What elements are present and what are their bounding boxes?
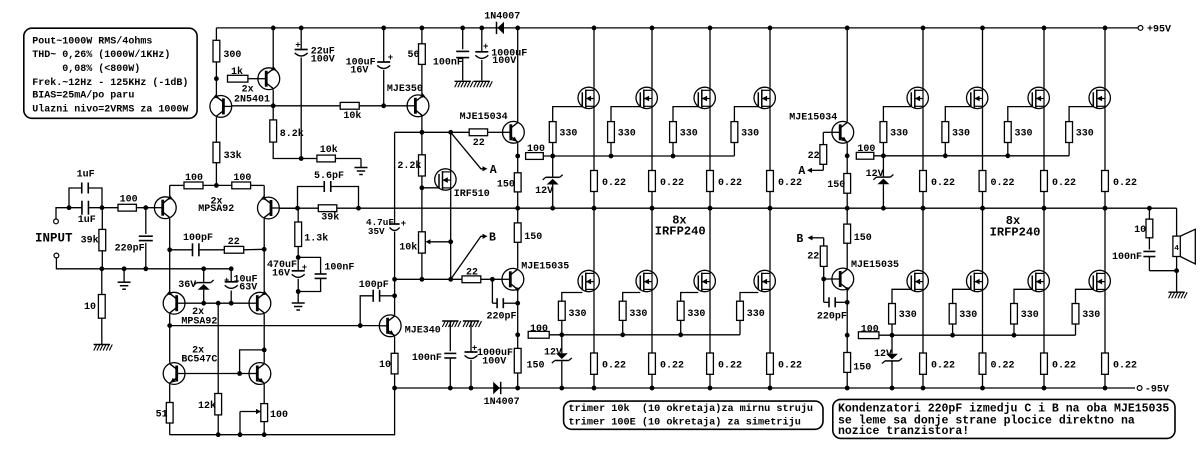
node 470uF/100nF bottom [296, 289, 301, 294]
resistor 10 (zobel) [1148, 208, 1150, 219]
node MJE15034R emitter / gate bus [845, 153, 850, 158]
node right diff collector / cascode [262, 247, 267, 252]
svg-text:-95V: -95V [1145, 385, 1169, 396]
wire gate bus 1 (left bank) [543, 155, 734, 157]
node diff right base [295, 206, 300, 211]
svg-text:100: 100 [861, 325, 879, 336]
svg-text:+: + [295, 40, 300, 50]
spec text box [24, 28, 197, 118]
svg-text:12V: 12V [544, 348, 562, 359]
node gate bus2R #2 [950, 333, 955, 338]
svg-text:100V: 100V [311, 55, 335, 66]
node gate bus1R #2 [943, 153, 948, 158]
resistor 0.22 (bank1 lower #2) [649, 353, 656, 374]
svg-text:0,08% (<800W): 0,08% (<800W) [62, 63, 140, 75]
svg-text:100nF: 100nF [433, 58, 463, 69]
resistor 1k [228, 75, 248, 82]
svg-text:+: + [224, 276, 229, 286]
wire BC547 diode connection [240, 350, 265, 374]
node source on output rail (bank2 #3) [1042, 206, 1047, 211]
resistor 330 (bank2 lower #4) [1076, 289, 1094, 303]
node lower zener on -rail [559, 386, 564, 391]
svg-text:330: 330 [569, 309, 587, 320]
speaker 4 ohm [1176, 208, 1178, 236]
svg-text:150: 150 [527, 361, 545, 372]
resistor 10 (MJE340 emitter) [394, 337, 396, 354]
terminal input hot [54, 219, 59, 224]
svg-text:330: 330 [680, 128, 698, 139]
svg-text:0.22: 0.22 [602, 178, 626, 189]
resistor 330 (bank2 lower #3) [1014, 289, 1032, 303]
transistor MJE15035 (left) [502, 268, 524, 290]
svg-text:330: 330 [747, 309, 765, 320]
svg-text:10k: 10k [343, 110, 361, 122]
svg-text:330: 330 [899, 310, 917, 321]
node -rail / MJE15035 column [515, 386, 520, 391]
svg-text:+95V: +95V [1147, 25, 1171, 36]
terminal +95V [1138, 26, 1143, 31]
resistor 10k (to ground) [317, 155, 336, 162]
node 100pF lower junction [392, 293, 397, 298]
zener 36V [203, 269, 205, 282]
node drain on +rail (bank1 #1) [592, 26, 597, 31]
node zener/cascode base [201, 301, 206, 306]
node ground-line junctions [99, 266, 104, 271]
ground (feedback, 3-bar) [297, 292, 299, 303]
node source on output rail (bank1 #3) [708, 206, 713, 211]
ground (speaker, hatched) [1176, 271, 1178, 292]
capacitor 100nF (zobel) [1143, 250, 1155, 252]
svg-text:MJE15034: MJE15034 [789, 112, 837, 123]
node gate bus1R/zener [881, 153, 886, 158]
wire +95V top rail [216, 27, 1138, 29]
svg-text:39k: 39k [81, 235, 99, 247]
capacitor 100pF (MJE340) [380, 295, 395, 297]
wire VAS base line [273, 105, 340, 107]
node source on output rail (bank2 #4) [1103, 206, 1108, 211]
node source on -rail (bank2 lower #1) [921, 386, 926, 391]
svg-text:0.22: 0.22 [718, 178, 742, 189]
node gate bus 2 left [515, 332, 520, 337]
node MJE15035 base / 220pF [490, 277, 495, 282]
resistor 330 (bank1 upper #2) [611, 107, 640, 122]
resistor 0.22 (bank1 upper #1) [591, 171, 598, 192]
wire B-node line [395, 278, 462, 280]
svg-text:330: 330 [1021, 310, 1039, 321]
wire -95V bottom rail [395, 387, 1135, 389]
svg-text:22: 22 [228, 237, 240, 248]
transistor IRFP240 (bank1 lower #3) [709, 208, 711, 270]
resistor 0.22 (bank2 lower #1) [920, 353, 927, 374]
node source on output rail (bank1 #2) [650, 206, 655, 211]
svg-text:10k: 10k [320, 144, 338, 156]
node MJE15035R emitter/220pF [845, 300, 850, 305]
svg-text:330: 330 [618, 128, 636, 139]
resistor 0.22 (bank2 lower #3) [1041, 353, 1048, 374]
svg-text:35V: 35V [368, 226, 385, 237]
resistor 150 (lowest, X2) [846, 335, 848, 352]
node drain on output rail (bank2 lower #4) [1103, 206, 1108, 211]
svg-text:63V: 63V [239, 282, 257, 293]
node trimmer wiper / IRF510 source [448, 239, 453, 244]
resistor 8.2k [272, 106, 274, 120]
wire cascode base line [185, 302, 249, 304]
resistor 39k (feedback) [318, 205, 337, 212]
transistor IRFP240 (bank2 lower #3) [1043, 208, 1045, 270]
node source on output rail (bank2 #2) [980, 206, 985, 211]
arrow B (right bank) [810, 237, 824, 239]
node lower zenerR on -rail [890, 386, 895, 391]
node drain on +rail (bank1 #4) [768, 26, 773, 31]
resistor 2.2k [421, 132, 423, 155]
node 100uF/MJE350 base [381, 103, 386, 108]
svg-text:1uF: 1uF [77, 170, 95, 181]
resistor 150 (lowest, X1) [517, 335, 519, 349]
resistor 0.22 (bank2 upper #3) [1041, 171, 1048, 192]
node drain on output rail (bank1 lower #2) [650, 206, 655, 211]
transistor IRFP240 (bank1 upper #1) [593, 28, 595, 87]
capacitor 5.6pF (feedback) [298, 187, 325, 209]
transistor IRFP240 (bank2 upper #1) [922, 28, 924, 87]
wire MJE15034 collector column [517, 28, 519, 122]
svg-text:0.22: 0.22 [718, 360, 742, 371]
resistor 150 (upper, X1) [517, 156, 519, 173]
svg-text:330: 330 [559, 128, 577, 139]
svg-text:Ulazni nivo=2VRMS za 1000W: Ulazni nivo=2VRMS za 1000W [32, 103, 188, 115]
node 39k/5.6pF output side [356, 206, 361, 211]
node gate bus2R #3 [1012, 333, 1017, 338]
svg-text:100pF: 100pF [183, 233, 213, 244]
node source on output rail (bank1 #4) [768, 206, 773, 211]
zener 12V (left bank lower) [561, 335, 563, 354]
resistor 100 (left diff emitter) [184, 182, 203, 189]
node 2.2k top [420, 130, 425, 135]
resistor 22 (B feed, right) [824, 278, 832, 280]
resistor 150 (upper, X2) [846, 156, 848, 174]
resistor 0.22 (bank2 lower #4) [1102, 353, 1109, 374]
node trimmer wiper bottom [238, 432, 243, 437]
svg-text:1k: 1k [231, 66, 243, 78]
node diff tail [214, 183, 219, 188]
node drain on +rail (bank2 #3) [1042, 26, 1047, 31]
svg-text:MJE15035: MJE15035 [851, 260, 899, 271]
node drain on output rail (bank1 lower #3) [708, 206, 713, 211]
svg-text:10: 10 [379, 360, 391, 371]
ground (input, 3-bar) [123, 269, 125, 282]
svg-text:220pF: 220pF [115, 244, 145, 255]
transistor BC547C (right) [263, 350, 265, 363]
svg-text:B: B [796, 233, 803, 246]
terminal input ground [54, 253, 59, 258]
wire input line to first stage [88, 207, 118, 209]
svg-text:+: + [388, 53, 393, 63]
svg-text:100: 100 [185, 173, 203, 184]
resistor 22 (A feed, right) [823, 131, 832, 133]
svg-text:trimer 100E (10 okretaja) za s: trimer 100E (10 okretaja) za simetriju [569, 416, 801, 428]
transistor MJE350 [407, 95, 429, 117]
wire gate bus 2 (right bank) [879, 334, 1076, 336]
svg-text:BIAS=25mA/po paru: BIAS=25mA/po paru [32, 90, 134, 102]
node source on -rail (bank2 lower #2) [980, 386, 985, 391]
svg-text:56: 56 [408, 50, 420, 61]
node gate bus1/zener [550, 154, 555, 159]
resistor 0.22 (bank1 lower #1) [591, 353, 598, 374]
svg-text:THD~ 0,26% (1000W/1KHz): THD~ 0,26% (1000W/1KHz) [32, 49, 170, 61]
resistor 22 (MJE15034 base) [469, 129, 487, 136]
svg-text:100: 100 [530, 324, 548, 335]
wire gate bus 1 (right bank) [874, 155, 1069, 157]
wire bottom-left return [170, 388, 395, 435]
svg-text:8.2k: 8.2k [280, 128, 304, 140]
svg-text:100V: 100V [482, 357, 506, 368]
zener 12V (left bank upper) [552, 156, 554, 177]
resistor 330 (bank1 upper #4) [734, 107, 758, 122]
node diode/MJE15034 column on +rail [515, 26, 520, 31]
node drain on output rail (bank1 lower #4) [768, 206, 773, 211]
node zenerR on output rail [881, 206, 886, 211]
svg-text:MJE350: MJE350 [387, 84, 423, 95]
node source on output rail (bank2 #1) [921, 206, 926, 211]
node 12k top [216, 301, 221, 306]
resistor 100 (gate bus 2 right) [858, 332, 879, 339]
wire MJE15034R emitter [846, 143, 848, 156]
transistor MJE15034 (right) [832, 121, 854, 143]
capacitor 1000uF 100V (top) [481, 28, 483, 52]
svg-text:330: 330 [1082, 310, 1100, 321]
node 2N5401/VAS line [271, 103, 276, 108]
wire MJE15035 emitter column [517, 290, 519, 335]
node source on output rail (bank1 #1) [592, 206, 597, 211]
trimmer 100 (symmetry) [261, 404, 268, 422]
node cascode collector/VAS line [167, 323, 172, 328]
node 1000uF on +rail [479, 26, 484, 31]
svg-text:MJE15034: MJE15034 [460, 112, 508, 123]
transistor IRFP240 (bank2 lower #1) [922, 208, 924, 270]
capacitor 220pF (input filter) [145, 208, 147, 234]
node drain on +rail (bank2 #4) [1103, 26, 1108, 31]
node 4.7uF bottom [392, 277, 397, 282]
svg-text:330: 330 [952, 128, 970, 139]
arrow A (to right bank) [452, 134, 483, 169]
resistor 330 (bank2 upper #4) [1069, 107, 1093, 122]
node 10k trimmer bottom on B line [420, 277, 425, 282]
svg-text:36V: 36V [178, 280, 196, 291]
svg-text:IRFP240: IRFP240 [990, 226, 1041, 240]
note box 220pF mounting [833, 399, 1175, 438]
svg-text:IRFP240: IRFP240 [655, 225, 706, 239]
svg-text:12V: 12V [866, 169, 884, 180]
node IRF510 drain / A [448, 130, 453, 135]
transistor IRFP240 (bank2 upper #2) [982, 28, 984, 87]
capacitor 100nF (rail bypass bottom) [442, 320, 458, 322]
node speaker return [1174, 268, 1179, 273]
node drain on output rail (bank2 lower #2) [980, 206, 985, 211]
svg-text:330: 330 [741, 128, 759, 139]
resistor 22 (comp) [224, 246, 243, 253]
svg-text:BC547C: BC547C [181, 355, 217, 366]
svg-text:22: 22 [473, 138, 485, 149]
node IRF510 source on B line [448, 277, 453, 282]
resistor 0.22 (bank1 upper #4) [767, 171, 774, 192]
svg-text:+: + [302, 263, 307, 273]
transistor IRFP240 (bank2 lower #4) [1104, 208, 1106, 270]
resistor 330 (bank1 lower #4) [740, 293, 758, 302]
transistor MJE15034 (left) [503, 121, 525, 143]
resistor 0.22 (bank2 upper #2) [979, 171, 986, 192]
node gate bus2/zener [559, 332, 564, 337]
resistor 300 [215, 28, 217, 40]
node X2 on output rail [845, 206, 850, 211]
wire diff collector line [170, 249, 193, 251]
node source on -rail (bank1 lower #1) [592, 386, 597, 391]
capacitor 100nF (bypass of 470uF) [298, 257, 320, 274]
resistor 100 (gate bus 1 right) [856, 152, 874, 159]
svg-text:33k: 33k [224, 150, 242, 162]
node gate bus1 #3 [671, 154, 676, 159]
capacitor 1000uF 100V (bottom) [463, 320, 479, 322]
transistor 2N5401 (left) [215, 79, 217, 96]
capacitor 22uF 100V [300, 28, 302, 49]
svg-text:100: 100 [270, 410, 288, 421]
svg-text:trimer 10k (10 okretaja)za mi: trimer 10k (10 okretaja)za mirnu struju [569, 403, 814, 415]
svg-text:0.22: 0.22 [1113, 178, 1137, 189]
capacitor 1uF (series input) [81, 201, 83, 215]
svg-text:51: 51 [156, 409, 168, 420]
node return on -rail [392, 386, 397, 391]
transistor IRFP240 (bank2 upper #3) [1043, 28, 1045, 87]
node left diff collector [167, 247, 172, 252]
svg-text:150: 150 [524, 232, 542, 243]
svg-text:2N5401: 2N5401 [234, 95, 270, 106]
node gate bus2 #3 [678, 332, 683, 337]
node 22uF on +rail [299, 26, 304, 31]
svg-text:0.22: 0.22 [660, 178, 684, 189]
transistor IRFP240 (bank2 lower #2) [982, 208, 984, 270]
svg-text:0.22: 0.22 [660, 360, 684, 371]
wire output rail (speaker bus) [280, 207, 1177, 209]
svg-text:12V: 12V [535, 186, 553, 197]
svg-text:Frek.~12Hz - 125KHz (-1dB): Frek.~12Hz - 125KHz (-1dB) [32, 77, 188, 89]
svg-text:B: B [489, 232, 496, 245]
node MJE15034 emitter / gate bus 1 [515, 154, 520, 159]
svg-text:0.22: 0.22 [991, 178, 1015, 189]
resistor 100 (gate bus 1 left) [526, 153, 544, 160]
svg-text:0.22: 0.22 [778, 360, 802, 371]
svg-text:150: 150 [854, 233, 872, 244]
svg-text:10k: 10k [399, 242, 417, 254]
resistor 1.3k [297, 208, 299, 222]
capacitor 220pF (right driver C-B) [823, 279, 825, 302]
svg-text:+: + [401, 219, 406, 229]
transistor IRFP240 (bank1 upper #3) [709, 28, 711, 87]
resistor 330 (bank2 upper #3) [1008, 107, 1033, 122]
wire diff emitter line [169, 185, 171, 196]
node trimmer 100 bottom [262, 432, 267, 437]
svg-text:150: 150 [497, 180, 515, 191]
diode 1N4007 (top rail) [496, 22, 498, 34]
svg-text:12V: 12V [874, 349, 892, 360]
resistor 12k [217, 303, 219, 393]
svg-text:100: 100 [120, 195, 138, 206]
transistor MPSA92 (cascode left) [169, 250, 171, 292]
resistor 100 (input series) [118, 204, 136, 211]
arrow B (to right bank) [451, 236, 483, 279]
svg-text:22: 22 [466, 267, 478, 278]
svg-text:INPUT: INPUT [35, 232, 73, 246]
transistor MJE15035 (right) [832, 268, 854, 290]
svg-text:0.22: 0.22 [991, 360, 1015, 371]
terminal -95V [1137, 386, 1142, 391]
node source on -rail (bank2 lower #4) [1103, 386, 1108, 391]
transistor IRFP240 (bank1 upper #4) [769, 28, 771, 87]
node 1000uF on -rail [469, 386, 474, 391]
resistor 330 (bank2 lower #1) [892, 289, 911, 303]
resistor 330 (bank1 upper #3) [673, 107, 698, 122]
resistor 330 (bank1 lower #2) [623, 293, 641, 302]
svg-text:10: 10 [1134, 225, 1146, 236]
transistor MPSA92 (diff left) [136, 207, 154, 209]
transistor IRFP240 (bank1 lower #2) [651, 208, 653, 270]
resistor 56 [419, 44, 426, 65]
transistor IRFP240 (bank1 lower #4) [769, 208, 771, 270]
arrow A (right bank) [809, 169, 823, 171]
capacitor 100pF (comp) [192, 243, 194, 256]
node X2 on -rail [845, 386, 850, 391]
node 12k bottom [216, 432, 221, 437]
svg-text:12k: 12k [198, 400, 216, 412]
ground (hatched, under 10) [94, 344, 110, 346]
node 2N5401 collector on +rail [271, 26, 276, 31]
svg-text:330: 330 [890, 128, 908, 139]
wire MJE15035R emitter column [846, 290, 848, 335]
node drain on +rail (bank1 #2) [650, 26, 655, 31]
svg-text:22: 22 [808, 151, 820, 162]
svg-text:150: 150 [827, 180, 845, 191]
node drain on output rail (bank2 lower #1) [921, 206, 926, 211]
node MJE15035R base / 220pF [821, 277, 826, 282]
svg-text:4: 4 [1174, 245, 1179, 253]
resistor 330 (bank2 upper #1) [883, 107, 911, 122]
resistor 330 (bank1 lower #1) [562, 293, 583, 302]
svg-text:300: 300 [223, 50, 241, 61]
svg-text:1.3k: 1.3k [304, 232, 328, 244]
svg-text:0.22: 0.22 [1052, 360, 1076, 371]
node 10uF bottom [229, 301, 234, 306]
svg-text:MJE15035: MJE15035 [521, 262, 569, 273]
node zener on output rail [550, 206, 555, 211]
transistor MPSA92 (cascode right) [263, 249, 265, 292]
node gate bus1 #2 [609, 154, 614, 159]
node drain on output rail (bank2 lower #3) [1042, 206, 1047, 211]
wire VAS drive line to MJE340 [170, 325, 380, 327]
node input/1uF junction [67, 205, 72, 210]
node drain on output rail (bank1 lower #1) [592, 206, 597, 211]
resistor 100 (right diff emitter) [232, 182, 251, 189]
transistor MPSA92 (diff right) [279, 207, 297, 209]
node 470uF/100nF top [296, 255, 301, 260]
diode 1N4007 (bottom rail) [493, 382, 500, 394]
resistor 150 (lower, X2) [846, 208, 848, 224]
svg-text:0.22: 0.22 [778, 178, 802, 189]
node VAS line to MJE340 base [358, 323, 363, 328]
node source on -rail (bank1 lower #2) [650, 386, 655, 391]
svg-text:100: 100 [233, 173, 251, 184]
wire zobel to speaker return [1149, 270, 1176, 272]
resistor 0.22 (bank2 upper #1) [920, 171, 927, 192]
resistor 330 (bank2 upper #2) [945, 107, 971, 122]
svg-text:100V: 100V [492, 56, 516, 67]
svg-text:5.6pF: 5.6pF [314, 171, 344, 182]
